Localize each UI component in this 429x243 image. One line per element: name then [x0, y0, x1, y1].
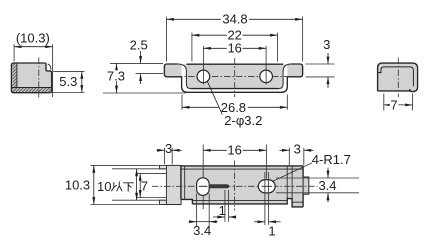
front view left tab outline: [164, 64, 181, 77]
dim 7.3 text: [106, 70, 127, 81]
plan inner bottom line: [192, 200, 287, 202]
dim 3 plan-left ext lines: [165, 148, 173, 165]
dim 3 plan-right ext lines: [289, 148, 304, 166]
dim 7.3 line: [116, 63, 118, 93]
dim 3 plan-right arrows: [280, 149, 290, 151]
dim 3.4 plan arrows: [189, 221, 197, 223]
dim 16 text: [227, 43, 243, 54]
right view bottom edge: [378, 90, 411, 92]
hole center marks / 16 extension lines: [203, 46, 266, 85]
kanji shita: [124, 183, 134, 191]
plan vertical center line: [234, 161, 236, 211]
dim 22 line: [192, 34, 278, 36]
plan main bar fill: [181, 166, 292, 204]
front view right bend inner line: [279, 64, 292, 89]
right view left step line: [378, 72, 381, 74]
svg-text:7.3: 7.3: [107, 68, 125, 83]
plan right mid tab: [303, 177, 309, 194]
front view body top edge: [186, 63, 283, 65]
left view center line: [38, 58, 40, 98]
left view outline: [11, 63, 51, 93]
svg-text:5.3: 5.3: [59, 74, 77, 89]
leader 4-R1.7: [273, 163, 312, 181]
dim 3.4 plan ext lines: [197, 194, 210, 227]
dim 3 right extension lines: [306, 64, 335, 77]
hole left (phi 3.2): [197, 70, 210, 83]
dim 2.5 extension lines: [110, 63, 163, 73]
left view hatched sheet section: [12, 63, 51, 93]
dim 16 plan text: [227, 145, 243, 156]
front view left bend inner line: [178, 64, 191, 89]
plan right hole vertical / 16 ext: [265, 145, 267, 179]
plan right slot: [258, 180, 275, 193]
dim 2.5 arrows: [140, 51, 142, 63]
dim 7 text: [390, 100, 399, 111]
svg-text:10: 10: [97, 179, 111, 194]
front view body inner bottom edge: [191, 88, 279, 90]
front view body fill: [186, 64, 283, 88]
svg-text:7: 7: [141, 178, 148, 193]
svg-text:16: 16: [227, 142, 241, 157]
dim 22 extension lines: [192, 33, 278, 62]
dim 10.3 line: [93, 165, 95, 204]
dim 3.4 right arrows: [327, 168, 329, 178]
plan left hole vertical center / 16 ext: [202, 145, 204, 210]
right view center line: [397, 58, 399, 98]
dim 10ika line: [136, 169, 138, 200]
dim 10ika ext lines: [112, 169, 165, 200]
dim 5.3 extension lines: [48, 71, 85, 92]
svg-text:1: 1: [268, 224, 275, 239]
left view body fill: [11, 63, 51, 93]
kanji I (yi): [112, 182, 134, 191]
dim 26.8 text: [219, 102, 248, 113]
plan horizontal center line: [152, 185, 318, 187]
svg-text:(10.3): (10.3): [16, 31, 50, 46]
dim 5.3 line: [81, 71, 83, 92]
dim 34.8 line: [167, 18, 303, 20]
dim 1 left ext lines: [225, 190, 229, 222]
svg-text:1: 1: [219, 203, 226, 218]
dim 22 text: [227, 30, 243, 41]
dim 7.3 extension line bottom: [103, 92, 186, 94]
svg-text:4-R1.7: 4-R1.7: [312, 152, 351, 167]
right view inner tab line: [381, 67, 414, 86]
left view tab-end hook: [48, 64, 51, 70]
dim 26.8 extension lines: [182, 95, 287, 110]
plan left hole (vertical slot): [197, 178, 210, 196]
front view horizontal center line: [176, 75, 294, 77]
dim 3 plan-left arrows: [157, 149, 165, 151]
dim 16 plan line: [203, 149, 266, 151]
dim 34.8 text: [221, 14, 249, 25]
front view vertical center line: [234, 58, 236, 97]
svg-text:3: 3: [294, 141, 301, 156]
dim 7 plan line: [139, 173, 141, 197]
dim (10.3) extension lines: [14, 44, 53, 97]
dim 7 line: [384, 104, 413, 106]
svg-text:7: 7: [390, 98, 397, 113]
svg-text:3: 3: [323, 37, 330, 52]
svg-text:3.4: 3.4: [193, 223, 211, 238]
left view inner sheet lines: [11, 63, 51, 88]
dim 16 line: [203, 47, 266, 49]
svg-text:16: 16: [227, 41, 241, 56]
svg-text:3: 3: [165, 141, 172, 156]
plan left slot center marks: [199, 185, 208, 187]
dim 1 right arrows: [254, 221, 265, 223]
hole right (phi 3.2): [260, 70, 273, 83]
svg-text:2-φ3.2: 2-φ3.2: [224, 113, 262, 128]
plan bottom-left notch: [182, 200, 192, 205]
right view body fill: [378, 63, 418, 91]
front view right tab fill: [287, 64, 302, 77]
svg-text:2.5: 2.5: [130, 37, 148, 52]
plan left bottom strip: [159, 200, 180, 204]
svg-text:10.3: 10.3: [65, 178, 90, 193]
plan bottom-right notch: [287, 199, 292, 208]
dim 3.4 right text: [318, 180, 338, 191]
plan right end outline: [302, 166, 304, 207]
plan inner top line: [181, 168, 303, 170]
plan left top strip: [159, 165, 180, 168]
dim 26.8 line: [182, 106, 287, 108]
plan right end strip lines: [292, 166, 303, 207]
dim 34.8 extension lines: [167, 17, 303, 62]
dim 1 left arrows: [213, 216, 225, 218]
dim 10ika text: 10 + kanji ika: [97, 180, 137, 192]
front view outer bottom profile: [182, 77, 288, 93]
plan right slot tangent ext lines (dim 1): [265, 172, 269, 225]
plan main bar outline: [181, 166, 303, 207]
dim 10.3 ext lines: [91, 165, 159, 204]
dim (10.3) line: [14, 46, 53, 48]
plan left web: [166, 165, 181, 204]
dim 3.4 right ext lines: [276, 178, 359, 193]
plan left keyhole slit: [209, 184, 229, 188]
right view outer outline with bottom hook: [378, 63, 418, 92]
plan bend lines: [185, 166, 288, 200]
leader 2-phi3.2: [207, 81, 222, 114]
dim 3 right arrows: [327, 53, 329, 64]
plan right end fill: [292, 166, 303, 207]
front view left tab fill: [164, 64, 181, 77]
svg-text:34.8: 34.8: [222, 12, 247, 27]
dim 7 extension lines: [384, 94, 413, 111]
front view right tab outline: [287, 64, 302, 77]
dim 7 plan ext lines: [137, 173, 166, 197]
svg-text:3.4: 3.4: [318, 178, 336, 193]
plan right slot center mark: [262, 185, 273, 187]
